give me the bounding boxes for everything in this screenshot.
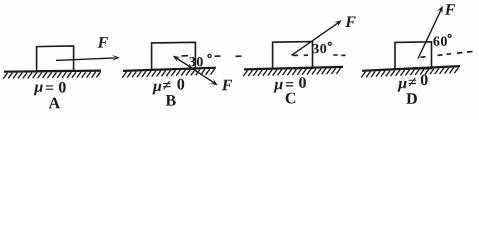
ground D xyxy=(361,66,460,77)
label C xyxy=(286,93,296,104)
angle label 60 deg (D) xyxy=(433,34,451,46)
label F (D) xyxy=(445,4,455,15)
dashed reference line (D) xyxy=(421,52,473,58)
label B xyxy=(166,95,176,106)
ground A xyxy=(3,71,101,79)
label F (B) xyxy=(222,80,232,91)
dashed reference line (B) xyxy=(182,55,242,58)
angle label 30 deg (B) xyxy=(189,54,211,66)
label mu != 0 (B) xyxy=(152,79,184,95)
ground C xyxy=(243,67,343,76)
label mu != 0 (D) xyxy=(398,74,428,91)
label F (A) xyxy=(98,37,108,48)
force arrow F (C), 30 deg above horizontal xyxy=(292,20,343,55)
force arrow F (B), 30 deg below horizontal, arrowheads both ends xyxy=(173,56,218,86)
force arrow F (A), horizontal xyxy=(56,55,120,61)
block D xyxy=(395,42,432,69)
label mu = 0 (A) xyxy=(34,82,66,95)
label D xyxy=(406,93,417,104)
label mu = 0 (C) xyxy=(274,77,306,92)
block B xyxy=(152,42,196,69)
block C xyxy=(273,42,313,69)
label F (C) xyxy=(345,17,355,28)
label A xyxy=(49,98,60,109)
force arrow F (D), 60 deg above horizontal xyxy=(418,6,443,59)
block A xyxy=(37,46,74,71)
ground B xyxy=(122,68,216,78)
angle label 30 deg (C) xyxy=(313,42,332,53)
dashed reference line (C) xyxy=(293,54,346,57)
